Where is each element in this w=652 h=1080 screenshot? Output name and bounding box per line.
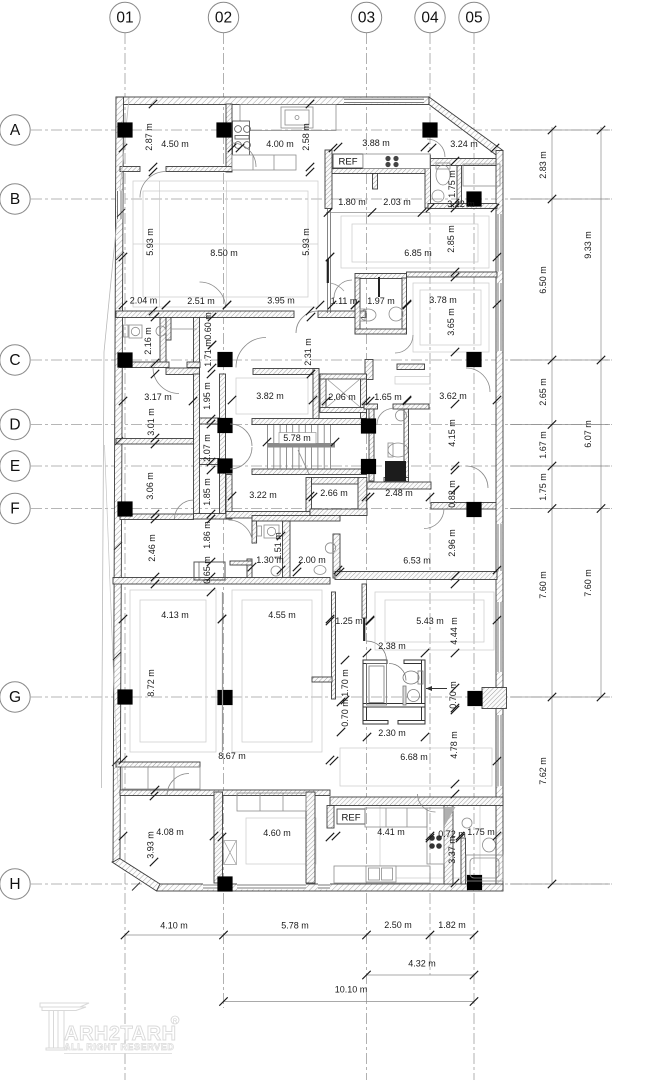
svg-text:4.41 m: 4.41 m	[377, 827, 405, 837]
svg-text:1.75 m: 1.75 m	[538, 473, 548, 501]
svg-text:2.58 m: 2.58 m	[301, 123, 311, 151]
svg-text:6.68 m: 6.68 m	[400, 752, 428, 762]
svg-text:1.67 m: 1.67 m	[538, 431, 548, 459]
svg-text:1.95 m: 1.95 m	[202, 382, 212, 410]
svg-text:2.46 m: 2.46 m	[147, 534, 157, 562]
svg-text:4.13 m: 4.13 m	[161, 610, 189, 620]
svg-text:1.85 m: 1.85 m	[202, 478, 212, 506]
svg-text:3.01 m: 3.01 m	[146, 408, 156, 436]
svg-text:2.96 m: 2.96 m	[447, 529, 457, 557]
svg-text:5.78 m: 5.78 m	[281, 921, 309, 931]
svg-text:1.82 m: 1.82 m	[438, 920, 466, 930]
svg-text:3.93 m: 3.93 m	[146, 831, 156, 859]
svg-text:3.62 m: 3.62 m	[439, 391, 467, 401]
svg-text:9.33 m: 9.33 m	[583, 231, 593, 259]
svg-text:8.72 m: 8.72 m	[146, 669, 156, 697]
svg-text:3.95 m: 3.95 m	[267, 296, 295, 306]
svg-text:1.86 m: 1.86 m	[202, 521, 212, 549]
svg-text:4.78 m: 4.78 m	[449, 731, 459, 759]
svg-text:3.88 m: 3.88 m	[362, 138, 390, 148]
svg-text:1.25 m: 1.25 m	[335, 616, 363, 626]
svg-text:1.65 m: 1.65 m	[374, 392, 402, 402]
svg-text:4.08 m: 4.08 m	[156, 827, 184, 837]
svg-text:4.44 m: 4.44 m	[449, 617, 459, 645]
svg-text:01: 01	[116, 10, 133, 27]
svg-text:02: 02	[215, 10, 232, 27]
svg-text:2.85 m: 2.85 m	[446, 225, 456, 253]
svg-text:3.22 m: 3.22 m	[447, 199, 475, 209]
svg-text:1.70 m: 1.70 m	[340, 669, 350, 697]
svg-text:REF: REF	[339, 157, 358, 168]
svg-text:6.85 m: 6.85 m	[404, 248, 432, 258]
svg-text:04: 04	[421, 10, 439, 27]
svg-text:05: 05	[465, 10, 482, 27]
svg-text:B: B	[10, 191, 20, 208]
svg-text:1.11 m: 1.11 m	[331, 296, 358, 306]
svg-text:3.24 m: 3.24 m	[450, 139, 478, 149]
svg-text:4.32 m: 4.32 m	[408, 959, 436, 969]
svg-text:2.16 m: 2.16 m	[143, 327, 153, 355]
svg-text:2.04 m: 2.04 m	[130, 296, 158, 306]
svg-text:0.70 m: 0.70 m	[448, 681, 458, 709]
svg-text:3.78 m: 3.78 m	[429, 295, 457, 305]
svg-text:03: 03	[358, 10, 375, 27]
svg-text:5.43 m: 5.43 m	[416, 616, 444, 626]
svg-text:2.31 m: 2.31 m	[303, 338, 313, 366]
svg-text:10.10 m: 10.10 m	[335, 985, 368, 995]
svg-text:2.00 m: 2.00 m	[298, 555, 326, 565]
svg-text:2.07 m: 2.07 m	[202, 434, 212, 462]
svg-text:4.50 m: 4.50 m	[161, 139, 189, 149]
svg-text:8.50 m: 8.50 m	[210, 248, 238, 258]
svg-text:6.53 m: 6.53 m	[403, 556, 431, 566]
svg-text:C: C	[9, 352, 20, 369]
svg-text:3.65 m: 3.65 m	[446, 308, 456, 336]
svg-text:2.65 m: 2.65 m	[538, 378, 548, 406]
svg-text:2.03 m: 2.03 m	[383, 197, 411, 207]
svg-text:0.65 m: 0.65 m	[202, 556, 212, 584]
svg-text:1.75 m: 1.75 m	[447, 170, 457, 198]
svg-text:0.60 m: 0.60 m	[203, 312, 213, 340]
svg-text:1.51 m: 1.51 m	[273, 532, 283, 560]
svg-text:5.93 m: 5.93 m	[301, 228, 311, 256]
svg-text:2.83 m: 2.83 m	[538, 151, 548, 179]
svg-text:2.30 m: 2.30 m	[378, 728, 406, 738]
svg-text:1.71 m: 1.71 m	[203, 339, 213, 367]
svg-text:1.75 m: 1.75 m	[467, 827, 495, 837]
svg-text:7.60 m: 7.60 m	[538, 571, 548, 599]
svg-text:4.60 m: 4.60 m	[263, 828, 291, 838]
svg-text:F: F	[10, 501, 19, 518]
svg-text:7.62 m: 7.62 m	[538, 757, 548, 785]
svg-text:1.97 m: 1.97 m	[367, 296, 395, 306]
svg-text:4.55 m: 4.55 m	[268, 610, 296, 620]
svg-text:E: E	[10, 458, 20, 475]
svg-text:4.00 m: 4.00 m	[266, 139, 294, 149]
svg-text:5.78 m: 5.78 m	[283, 433, 311, 443]
svg-text:3.22 m: 3.22 m	[249, 490, 277, 500]
svg-text:7.60 m: 7.60 m	[583, 569, 593, 597]
svg-text:2.38 m: 2.38 m	[378, 641, 406, 651]
svg-text:3.37 m: 3.37 m	[447, 836, 457, 864]
svg-text:4.10 m: 4.10 m	[160, 921, 188, 931]
svg-text:0.82 m: 0.82 m	[447, 480, 457, 508]
svg-text:3.06 m: 3.06 m	[145, 472, 155, 500]
svg-text:H: H	[9, 876, 20, 893]
svg-text:6.50 m: 6.50 m	[538, 266, 548, 294]
svg-text:8.67 m: 8.67 m	[218, 751, 246, 761]
svg-text:2.87 m: 2.87 m	[144, 123, 154, 151]
svg-text:3.17 m: 3.17 m	[144, 392, 172, 402]
svg-text:5.93 m: 5.93 m	[145, 228, 155, 256]
svg-text:ALL RIGHT RESERVED: ALL RIGHT RESERVED	[64, 1042, 174, 1052]
svg-text:2.51 m: 2.51 m	[187, 296, 215, 306]
svg-text:A: A	[10, 122, 21, 139]
svg-text:D: D	[9, 417, 20, 434]
svg-text:REF: REF	[342, 813, 361, 824]
svg-text:1.80 m: 1.80 m	[338, 197, 366, 207]
svg-text:2.06 m: 2.06 m	[328, 392, 356, 402]
svg-text:2.50 m: 2.50 m	[384, 920, 412, 930]
svg-text:2.66 m: 2.66 m	[320, 488, 348, 498]
svg-text:G: G	[9, 689, 21, 706]
svg-text:R: R	[173, 1019, 178, 1025]
svg-text:3.82 m: 3.82 m	[256, 391, 284, 401]
svg-text:2.48 m: 2.48 m	[385, 488, 413, 498]
svg-text:4.15 m: 4.15 m	[447, 419, 457, 447]
